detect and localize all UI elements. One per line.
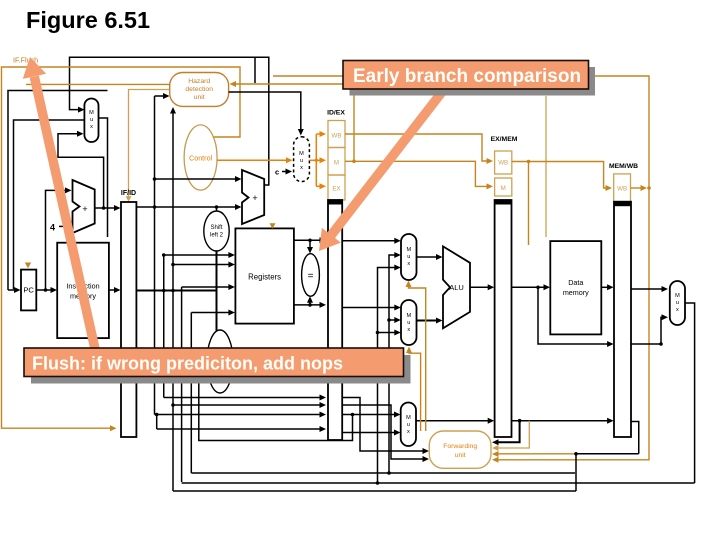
svg-text:4: 4	[50, 223, 55, 233]
svg-text:Registers: Registers	[248, 273, 281, 282]
mux M1 (PC source)	[84, 99, 98, 143]
wire: ALU result bypass into MEM/WB	[538, 287, 614, 347]
svg-text:+: +	[252, 193, 257, 203]
svg-text:M: M	[334, 160, 339, 167]
wire: PC to instruction memory	[36, 287, 57, 293]
wire: MEM/WB WB control out to orange net	[631, 185, 648, 191]
svg-text:Control: Control	[189, 154, 213, 163]
shift left 2 unit	[204, 207, 229, 251]
svg-text:Hazard: Hazard	[188, 78, 210, 85]
mux M4 (RegDst)	[401, 403, 416, 447]
wire: top feedback line (branch target to PC mux)	[70, 57, 269, 185]
svg-text:x: x	[407, 327, 410, 333]
control unit	[184, 125, 217, 190]
svg-text:detection: detection	[185, 86, 213, 93]
svg-text:u: u	[300, 158, 303, 164]
svg-text:IF/ID: IF/ID	[121, 190, 136, 197]
pipeline register MEM/WB	[614, 202, 631, 437]
sign extend unit	[207, 330, 233, 393]
svg-text:unit: unit	[194, 94, 205, 101]
wire: ID/EX rt to RegDst mux top	[342, 412, 400, 418]
wire: ID/EX rd to RegDst mux bottom	[342, 430, 400, 436]
svg-text:MEM/WB: MEM/WB	[609, 163, 638, 170]
wire: PC value up to PC+4 adder	[46, 187, 72, 290]
wire: read register 1 input	[162, 252, 235, 398]
wire: long WB value line to write data	[191, 472, 575, 474]
svg-text:+: +	[82, 204, 87, 214]
wire: tan inner frame right edge	[545, 96, 547, 237]
wire: forward path from WB stage into muxes	[376, 265, 401, 485]
svg-text:Data: Data	[568, 278, 583, 287]
wire: WB control EX/MEM to MEM/WB (orange)	[512, 160, 612, 191]
wire: hazard unit output to control zero mux	[229, 92, 304, 136]
wire: forward path from MEM stage into muxes	[387, 252, 401, 475]
mux M2 (forward A)	[401, 234, 417, 280]
svg-text:x: x	[676, 307, 679, 313]
big salmon arrow 2 (pointing to comparator)	[319, 92, 442, 251]
wire: instruction bus from IF/ID	[136, 289, 216, 293]
hazard detection unit	[170, 73, 229, 107]
svg-text:memory: memory	[563, 288, 589, 297]
pipeline register ID/EX	[328, 200, 342, 440]
wire: zero mux output into ID/EX control boxes	[309, 131, 326, 189]
wire: IF/ID PC+4 to branch adder lower input	[136, 204, 241, 210]
svg-text:u: u	[676, 300, 679, 306]
wire: rd field into ID/EX	[155, 413, 326, 432]
svg-text:x: x	[300, 165, 303, 171]
wire: ForwardA control up to mux A (orange)	[406, 281, 426, 432]
svg-text:M: M	[406, 313, 411, 319]
svg-text:x: x	[90, 124, 93, 130]
wire: IF/ID.rs into hazard unit left	[155, 93, 170, 99]
wire: WB control ID/EX to EX/MEM (orange)	[345, 134, 493, 164]
svg-text:M: M	[406, 247, 411, 253]
adder A1 (PC+4)	[73, 180, 95, 233]
svg-text:=: =	[308, 271, 314, 282]
wire: destination register number through EX/MEM and MEM/WB	[416, 418, 614, 424]
wire: EX/MEM RegWrite orange into forwarding unit	[492, 421, 529, 451]
wire: mux B output to ALU	[417, 318, 443, 324]
wire: PC source mux output loop	[14, 118, 108, 289]
svg-text:u: u	[407, 320, 410, 326]
comparator =	[302, 254, 320, 297]
wire: read data 2 output to ID/EX and comparator	[294, 296, 326, 308]
wire: PCWrite arrowhead above PC	[25, 263, 31, 269]
adder A2 (branch target)	[242, 170, 264, 224]
svg-text:u: u	[90, 117, 93, 123]
svg-text:Shift: Shift	[210, 225, 222, 231]
svg-text:ALU: ALU	[449, 283, 464, 292]
registers file	[235, 228, 294, 323]
wire: read data into MEM/WB	[601, 284, 613, 290]
wire: ID/EX read data 1 to forward mux A	[342, 238, 401, 244]
wire: branch adder upper input	[153, 176, 242, 182]
wire: vertical bus rs (hazard to ID/EX)	[154, 96, 156, 415]
wire: ForwardB control up to mux B (orange)	[406, 347, 421, 432]
wire: read register 2 input	[171, 262, 235, 268]
svg-text:WB: WB	[617, 186, 627, 193]
wire: instruction to shift and sign extend vertical	[216, 251, 218, 331]
svg-text:PC: PC	[23, 286, 34, 295]
big salmon arrow 1 (pointing to IF.Flush)	[23, 57, 95, 349]
svg-text:Forwarding: Forwarding	[443, 443, 477, 450]
svg-text:unit: unit	[455, 452, 466, 459]
label c and arrow into zero mux	[275, 168, 292, 177]
wire: rs to forwarding unit	[342, 398, 429, 455]
MEM/WB control box WB	[614, 174, 631, 202]
wire: instruction into IF/ID	[109, 287, 121, 293]
wire: IF.Flush from hazard unit down left edge into IF/ID	[2, 67, 241, 431]
wire: write register number input	[182, 284, 235, 482]
wire: M control ID/EX to EX/MEM (orange thin)	[345, 161, 493, 189]
wire: rt field into ID/EX	[171, 402, 326, 408]
svg-text:Flush: if wrong prediciton, ad: Flush: if wrong prediciton, add nops	[32, 354, 343, 374]
svg-text:x: x	[407, 429, 410, 435]
wire: IF/ID.Write from hazard unit	[126, 90, 170, 202]
svg-text:M: M	[501, 185, 506, 192]
wire: IF/ID.rt up into hazard unit bottom	[170, 107, 176, 491]
wire: ALU result to data memory address	[512, 284, 551, 290]
wire: control output to zero mux	[217, 157, 293, 163]
wire: read data 1 output to ID/EX and comparator	[294, 237, 326, 253]
svg-text:WB: WB	[332, 133, 342, 140]
ID/EX control boxes WB M EX	[328, 121, 345, 201]
wire: MEM/WB.RegWrite long orange path (top and right)	[273, 76, 651, 463]
wire: outer left frame / PC input	[8, 91, 108, 294]
wire: long write back bottom line	[182, 482, 695, 484]
forwarding unit	[429, 431, 491, 468]
wire: under ID/EX register link	[199, 365, 353, 441]
ALU	[443, 246, 470, 328]
svg-text:u: u	[407, 422, 410, 428]
wire: PC+4 into IF/ID	[95, 205, 121, 211]
wire: bypass value loop to WB mux	[631, 314, 668, 346]
wire: MEM/WB rd out to forwarding unit	[492, 422, 639, 458]
svg-text:ID/EX: ID/EX	[327, 110, 345, 117]
wire: write data input	[191, 310, 235, 474]
callout box: Early branch comparison	[343, 61, 595, 96]
svg-text:M: M	[89, 110, 94, 116]
svg-text:x: x	[407, 261, 410, 267]
mux M6 (control zero mux)	[294, 137, 310, 182]
svg-text:left 2: left 2	[210, 233, 224, 239]
wire: mux A output to ALU	[417, 254, 443, 260]
wire: rs field into ID/EX	[164, 395, 326, 401]
svg-text:Early branch comparison: Early branch comparison	[353, 66, 581, 87]
wire: ALU result into EX/MEM	[470, 284, 494, 290]
wire: rt field into ID/EX second	[155, 412, 327, 418]
wire: write back mux output down right edge	[685, 303, 695, 483]
data memory	[550, 241, 601, 334]
svg-text:WB: WB	[498, 160, 508, 167]
pipeline register IF/ID	[121, 190, 136, 437]
EX/MEM control boxes	[495, 151, 512, 196]
svg-text:c: c	[275, 168, 279, 177]
mux M3 (forward B)	[401, 300, 417, 345]
label: constant 4 into adder	[50, 223, 70, 233]
svg-text:M: M	[406, 415, 411, 421]
PC register	[21, 270, 36, 311]
wire: EX/MEM rd into forwarding unit right	[492, 421, 520, 446]
wire: ID/EX read data 2 to forward mux B	[342, 305, 401, 311]
svg-text:EX/MEM: EX/MEM	[491, 136, 518, 143]
wire: PCWrite from hazard unit (orange)	[26, 83, 170, 85]
svg-text:EX: EX	[332, 186, 340, 193]
svg-text:M: M	[299, 151, 304, 157]
wire: PC+4 loop into mux M1	[58, 131, 105, 210]
pipeline register EX/MEM	[495, 200, 512, 437]
svg-text:Figure 6.51: Figure 6.51	[26, 7, 150, 33]
wire: RegWrite arrowhead above registers	[270, 223, 276, 229]
svg-text:M: M	[675, 293, 680, 299]
instruction memory	[57, 243, 109, 338]
wire: ID/EX.MemRead into hazard unit (orange)	[230, 81, 356, 163]
wire: rt to forwarding unit	[342, 405, 429, 462]
callout box: Flush note	[24, 348, 411, 384]
svg-text:u: u	[407, 254, 410, 260]
wire: M control down to data memory (orange thin)	[528, 162, 530, 246]
mux M5 (write back)	[670, 281, 685, 325]
wire: long rt line to forward mux area	[173, 454, 576, 491]
wire: memory data to WB mux	[631, 286, 668, 292]
